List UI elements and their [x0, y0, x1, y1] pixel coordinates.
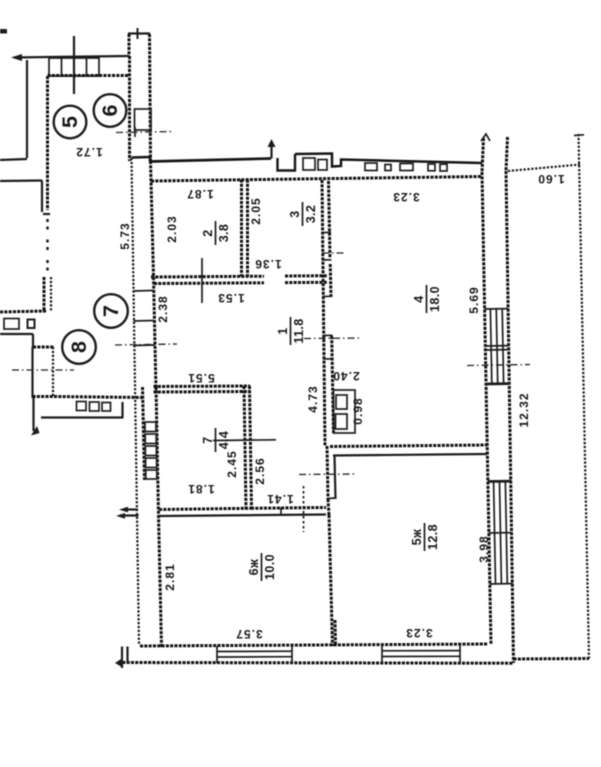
dash-dot D2 [12, 369, 74, 371]
room5zh door jamb line [335, 456, 336, 499]
stairwell room top wall [48, 74, 130, 77]
rooms2-3 south wall upper line [151, 275, 264, 279]
room7 door tick [213, 439, 276, 442]
duct box room4 corner [334, 390, 356, 433]
svg-text:2: 2 [201, 229, 215, 236]
svg-text:3.23: 3.23 [392, 190, 419, 204]
hall south wall tick [280, 508, 282, 516]
south-west tick arrow [115, 659, 121, 667]
dash-dot room4 door [304, 337, 360, 340]
dash-dot D3 [115, 344, 177, 345]
svg-text:3.2: 3.2 [304, 205, 318, 224]
svg-text:18.0: 18.0 [428, 286, 442, 312]
room 3 label [288, 202, 318, 226]
wall block rung [33, 395, 55, 398]
duct rect on stairwell east wall [135, 109, 152, 130]
stairwell west wall [46, 76, 49, 210]
lower corridor west wall [32, 398, 34, 431]
centerline tick [134, 127, 136, 137]
neighbour rect A [4, 319, 19, 330]
svg-text:12.8: 12.8 [426, 524, 440, 550]
room3 east wall [322, 180, 325, 446]
closet rung 2 [134, 320, 154, 323]
lower corridor south wall [41, 416, 124, 418]
dash-dot east window [467, 365, 530, 366]
exit arrow down [31, 426, 40, 436]
balcony east line [579, 134, 590, 659]
svg-text:2.38: 2.38 [156, 295, 170, 322]
wall block west [31, 347, 33, 398]
neighbour wall second horizontal [0, 179, 42, 182]
entrance arrowheads [119, 507, 128, 513]
window room 5zh [382, 645, 460, 664]
dash-dot 5zh door [299, 473, 357, 476]
wall to left edge [0, 159, 27, 160]
window E2 hatch [488, 482, 513, 584]
vent spike with arrow [268, 139, 276, 159]
room6zh door leaf dotted [303, 486, 305, 532]
svg-text:0.98: 0.98 [351, 397, 365, 424]
wall to corridor-8 [33, 346, 54, 349]
stairwell west door bar [43, 213, 50, 215]
svg-text:6ж: 6ж [247, 559, 261, 576]
node corner [32, 334, 34, 347]
svg-text:6: 6 [98, 104, 122, 116]
balcony top tick [574, 134, 584, 137]
room 4 label [412, 285, 442, 313]
svg-text:7: 7 [99, 305, 123, 317]
svg-text:1.72: 1.72 [75, 145, 102, 159]
room1|room4 wall rungs [322, 233, 333, 360]
svg-text:5.69: 5.69 [467, 286, 481, 313]
stray scan mark top-left [0, 29, 7, 34]
svg-text:10.0: 10.0 [263, 554, 277, 580]
svg-text:3.57: 3.57 [235, 627, 262, 641]
north arrow wall top-left [11, 54, 129, 61]
svg-text:4.4: 4.4 [217, 431, 231, 450]
south-west stub [121, 647, 123, 669]
svg-text:1.36: 1.36 [254, 257, 281, 271]
svg-text:5ж: 5ж [410, 529, 424, 546]
room1|room4 wall segments [330, 264, 333, 433]
circled 6 [94, 94, 127, 127]
svg-text:8: 8 [67, 341, 91, 353]
stairwell west dashed opening [46, 219, 49, 272]
svg-text:2.40: 2.40 [332, 369, 359, 383]
neighbour wall dotted [0, 311, 46, 312]
svg-text:3: 3 [288, 210, 302, 217]
circled 7 [94, 294, 128, 328]
vent boxes corridor [77, 402, 111, 412]
svg-text:5.73: 5.73 [118, 222, 132, 249]
svg-text:2.03: 2.03 [165, 215, 179, 242]
svg-text:1.60: 1.60 [537, 172, 564, 186]
svg-text:1.87: 1.87 [186, 187, 213, 201]
room 6zh label [247, 553, 277, 581]
svg-text:1.53: 1.53 [217, 291, 244, 305]
neighbour wall solid [0, 333, 33, 335]
apartment west wall dotted [132, 158, 140, 645]
window room 6zh [217, 646, 292, 663]
room6zh|5zh divider [329, 515, 333, 646]
room 2 label [201, 221, 231, 245]
east column above break [482, 138, 484, 172]
room5zh north wall [330, 445, 487, 447]
lower corridor east stub [121, 402, 123, 418]
room5zh west wall dotted [327, 446, 328, 497]
outer wall west upper [26, 60, 28, 158]
room 7 label [201, 428, 231, 452]
svg-text:5.51: 5.51 [187, 371, 214, 385]
circled 5 [54, 106, 87, 139]
dash-dot room4 upper tick [322, 252, 345, 254]
room2 door leaf [201, 258, 203, 303]
circled 8 [62, 330, 96, 364]
room 6zh west wall [159, 515, 162, 647]
apartment south inner wall [140, 644, 488, 646]
svg-text:3.23: 3.23 [405, 626, 432, 640]
north wall vent rects [303, 158, 447, 171]
neighbour wall corner vertical [41, 181, 43, 213]
door tick [327, 497, 337, 500]
room7 west wall block [143, 387, 145, 480]
rooms2-3 south wall lower line [154, 281, 264, 285]
svg-text:1.81: 1.81 [187, 482, 214, 496]
corridor-8 south wall dotted [54, 397, 144, 398]
dash-dot D1 [116, 132, 174, 133]
stair flight S1 [49, 36, 99, 94]
entrance arrow upper [123, 508, 138, 510]
vent boxes room7 wall [145, 422, 157, 479]
room7 south wall [159, 508, 251, 509]
svg-text:4: 4 [412, 295, 426, 302]
east column east line [506, 171, 514, 663]
closet rung 1 [133, 290, 153, 293]
hall west wall piece [154, 277, 157, 390]
svg-text:2.81: 2.81 [163, 563, 177, 590]
closet rung 3 [134, 344, 155, 347]
apartment north outer wall [132, 154, 483, 171]
svg-text:11.8: 11.8 [292, 318, 306, 343]
svg-text:12.32: 12.32 [517, 392, 531, 427]
apartment south outer wall [118, 661, 513, 665]
room2|room3 divider [240, 180, 243, 277]
entrance arrow lower [120, 514, 139, 516]
svg-text:2.56: 2.56 [253, 457, 267, 484]
svg-text:2.05: 2.05 [249, 197, 263, 224]
svg-text:2.45: 2.45 [225, 450, 239, 477]
svg-text:3.98: 3.98 [477, 535, 491, 562]
closet east wall / room2 west wall [151, 161, 154, 277]
room 5zh label [410, 523, 440, 551]
corridor-8 west wall upper [43, 277, 46, 312]
room 1 label [276, 317, 306, 345]
wall block east dotted [52, 347, 54, 397]
neighbour rect B [28, 320, 35, 329]
svg-text:5: 5 [58, 116, 82, 128]
svg-text:7: 7 [201, 436, 215, 443]
room7 east wall [244, 386, 246, 509]
hall south wall solid [159, 515, 326, 517]
window E1 hatch [485, 309, 510, 384]
hook wall above apartment [128, 28, 151, 161]
apartment north inner wall [151, 177, 482, 182]
room7 north wall [154, 385, 251, 389]
stairwell east wall [128, 56, 131, 161]
svg-text:4.73: 4.73 [306, 385, 320, 412]
svg-text:3.8: 3.8 [217, 224, 231, 243]
balcony north line [508, 165, 580, 172]
east column west line [482, 172, 491, 645]
column block caps [486, 383, 510, 385]
svg-text:1: 1 [276, 327, 290, 334]
svg-text:1.41: 1.41 [266, 492, 293, 506]
break mark [481, 134, 490, 141]
